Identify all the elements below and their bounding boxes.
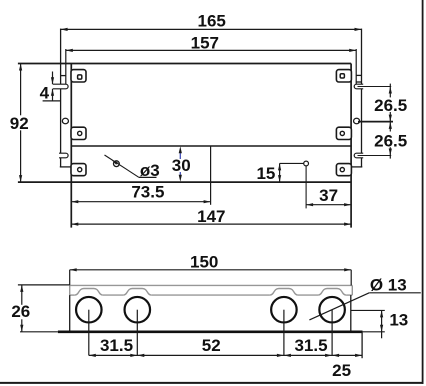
svg-text:147: 147: [197, 207, 225, 226]
dimension 157: [66, 34, 356, 85]
body outline top view: [18, 64, 351, 228]
svg-text:31.5: 31.5: [100, 336, 133, 355]
dimension 15: [256, 163, 281, 183]
base edge extension right: [363, 331, 385, 333]
center line node: [210, 146, 212, 205]
dimension 13: [351, 310, 408, 338]
border frame bottom: [0, 382, 424, 384]
hole circle 4: [319, 297, 345, 323]
dimension 147: [71, 207, 351, 226]
svg-text:26: 26: [11, 302, 30, 321]
dimension 73.5: [71, 182, 210, 203]
dimension 26.5 lower: [358, 122, 408, 159]
dimension 30: [172, 146, 191, 182]
oval hole right rail: [354, 118, 360, 124]
diameter 13 callout: [309, 276, 420, 320]
mounting ear right 3: [336, 164, 351, 176]
svg-text:4: 4: [40, 84, 50, 103]
bottom view base edge: [58, 330, 363, 333]
svg-text:92: 92: [10, 114, 29, 133]
svg-text:30: 30: [172, 156, 191, 175]
right rail outer edge: [351, 29, 362, 167]
svg-text:52: 52: [202, 336, 221, 355]
mounting ear right 1: [336, 70, 351, 82]
svg-text:157: 157: [191, 34, 219, 53]
dimension 26.5 upper: [358, 84, 408, 122]
slot left top: [53, 84, 68, 89]
mounting ear left 2: [71, 127, 86, 139]
dimension 165: [61, 11, 362, 31]
hole circle 3: [271, 297, 297, 323]
base edge extension left: [20, 331, 58, 333]
hole circle 2: [125, 297, 151, 323]
oval hole left rail: [62, 118, 68, 124]
chain dimensions 31.5 52 31.5 25: [89, 336, 362, 380]
svg-text:Ø 13: Ø 13: [370, 276, 407, 295]
hole d3 callout: [105, 155, 160, 180]
bottom view body sides: [70, 295, 351, 332]
svg-text:15: 15: [256, 164, 275, 183]
svg-text:150: 150: [190, 253, 218, 272]
svg-text:26.5: 26.5: [374, 96, 407, 115]
svg-text:37: 37: [319, 186, 338, 205]
svg-text:73.5: 73.5: [131, 182, 164, 201]
small hole near 15: [280, 161, 309, 208]
hole circle 1: [76, 297, 102, 323]
svg-text:31.5: 31.5: [294, 336, 327, 355]
dimension 4: [40, 72, 61, 103]
right foot edge: [361, 332, 363, 358]
mounting ear left 3: [71, 164, 86, 176]
bottom view top plate: [70, 285, 353, 295]
left rail outer edge: [60, 29, 72, 167]
internal divider line: [71, 145, 351, 147]
mounting ear right 2: [336, 127, 351, 139]
slot right top: [354, 84, 363, 89]
border frame right: [422, 0, 424, 384]
dimension 150: [70, 253, 352, 286]
svg-text:25: 25: [332, 361, 351, 380]
dimension 92: [9, 64, 31, 183]
mounting ear left 1: [71, 70, 86, 82]
svg-text:ø3: ø3: [140, 161, 160, 180]
dimension 26: [10, 285, 70, 332]
svg-text:165: 165: [198, 11, 226, 30]
slot right bottom: [354, 153, 363, 158]
slot left bottom: [59, 153, 68, 158]
svg-text:26.5: 26.5: [374, 131, 407, 150]
hole center extension lines: [89, 310, 332, 356]
svg-text:13: 13: [389, 311, 408, 330]
dimension 37: [306, 186, 351, 206]
